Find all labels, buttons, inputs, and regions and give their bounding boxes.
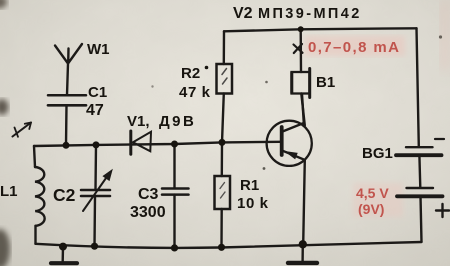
transistor V2 collector [283, 94, 304, 132]
node: ground-left junction [59, 243, 67, 251]
diode V1 cathode bar [129, 131, 132, 154]
transistor V2 emitter arrow (PNP) [286, 152, 297, 159]
wire: battery to bottom rail [421, 196, 422, 242]
label R2 asterisk dot [205, 66, 209, 70]
node: C2 top junction [93, 141, 100, 148]
wire: R2 bottom to base node [222, 94, 224, 143]
svg-text:0,7–0,8 mA: 0,7–0,8 mA [308, 39, 400, 56]
earphone B1 box [292, 29, 310, 125]
scan smudge left edge [0, 99, 9, 115]
wire: R1 bottom lead [220, 209, 223, 247]
wire: bottom rail [36, 242, 422, 248]
capacitor C2 (variable) [81, 145, 112, 246]
ferrite antenna arrow mark [13, 123, 32, 137]
svg-text:R2: R2 [181, 65, 200, 82]
pink halo behind 4,5V text [353, 183, 403, 217]
svg-text:47: 47 [86, 102, 104, 119]
svg-text:Д9В: Д9В [159, 113, 196, 130]
scan speck [265, 81, 268, 84]
scan speck [439, 35, 442, 38]
x mark (current measure point) [294, 44, 303, 53]
wire: top rail [224, 28, 417, 31]
transistor V2 emitter [283, 151, 305, 245]
wire: L1 bottom lead [34, 226, 36, 244]
scan speck [263, 167, 266, 170]
svg-text:МП39-МП42: МП39-МП42 [258, 6, 362, 22]
ground (left) [51, 247, 77, 264]
node: B1 top junction [298, 26, 304, 32]
scan speck [151, 85, 153, 87]
antenna W1 [55, 44, 82, 95]
inductor L1 [35, 167, 45, 226]
svg-text:B1: B1 [316, 74, 335, 91]
node: R1 bottom junction [218, 244, 225, 251]
plus sign of battery [436, 204, 449, 217]
svg-text:C2: C2 [53, 185, 76, 205]
node: C3 top junction [171, 141, 178, 148]
minus sign of battery [435, 138, 444, 140]
wire: between cells [418, 155, 421, 188]
capacitor C3 [162, 144, 189, 248]
svg-text:C1: C1 [88, 84, 107, 101]
wire: base node to R1 [221, 142, 224, 176]
node: base junction [219, 139, 226, 146]
node: C3 bottom junction [171, 244, 178, 251]
node: C2 bottom junction [91, 243, 98, 250]
resistor R1 [215, 176, 231, 209]
svg-text:V2: V2 [233, 5, 253, 22]
svg-text:V1,: V1, [127, 113, 150, 130]
scan smudge top-left corner [0, 0, 7, 9]
node: C1/mid-rail junction [63, 142, 70, 149]
wire: mid rail (tank to base) [34, 142, 280, 146]
battery BG1 cell 1 [396, 147, 442, 155]
capacitor C1 [48, 95, 86, 145]
svg-text:3300: 3300 [130, 204, 166, 221]
svg-text:(9V): (9V) [358, 201, 384, 217]
wire: right side down to battery [417, 28, 419, 147]
transistor V2 circle [267, 121, 312, 166]
svg-text:W1: W1 [87, 41, 110, 58]
ground (right) [288, 244, 317, 263]
diode V1 triangle [133, 132, 151, 152]
svg-text:4,5 V: 4,5 V [356, 185, 389, 201]
pink tint right edge [440, 0, 450, 70]
svg-text:L1: L1 [0, 183, 18, 200]
svg-text:10 k: 10 k [237, 195, 269, 212]
wire: L1 top lead [34, 146, 35, 167]
svg-text:R1: R1 [240, 177, 259, 194]
svg-text:BG1: BG1 [362, 145, 393, 162]
transistor V2 base bar [280, 127, 284, 155]
svg-text:C3: C3 [138, 186, 159, 203]
pink halo behind mA text [305, 36, 405, 56]
wire: R2 top lead [223, 31, 226, 64]
scan smudge bottom-left corner [0, 229, 10, 269]
battery BG1 cell 2 [397, 188, 443, 196]
resistor R2 [217, 64, 233, 94]
node: emitter/ground junction [299, 240, 307, 248]
svg-text:47 k: 47 k [179, 84, 211, 101]
